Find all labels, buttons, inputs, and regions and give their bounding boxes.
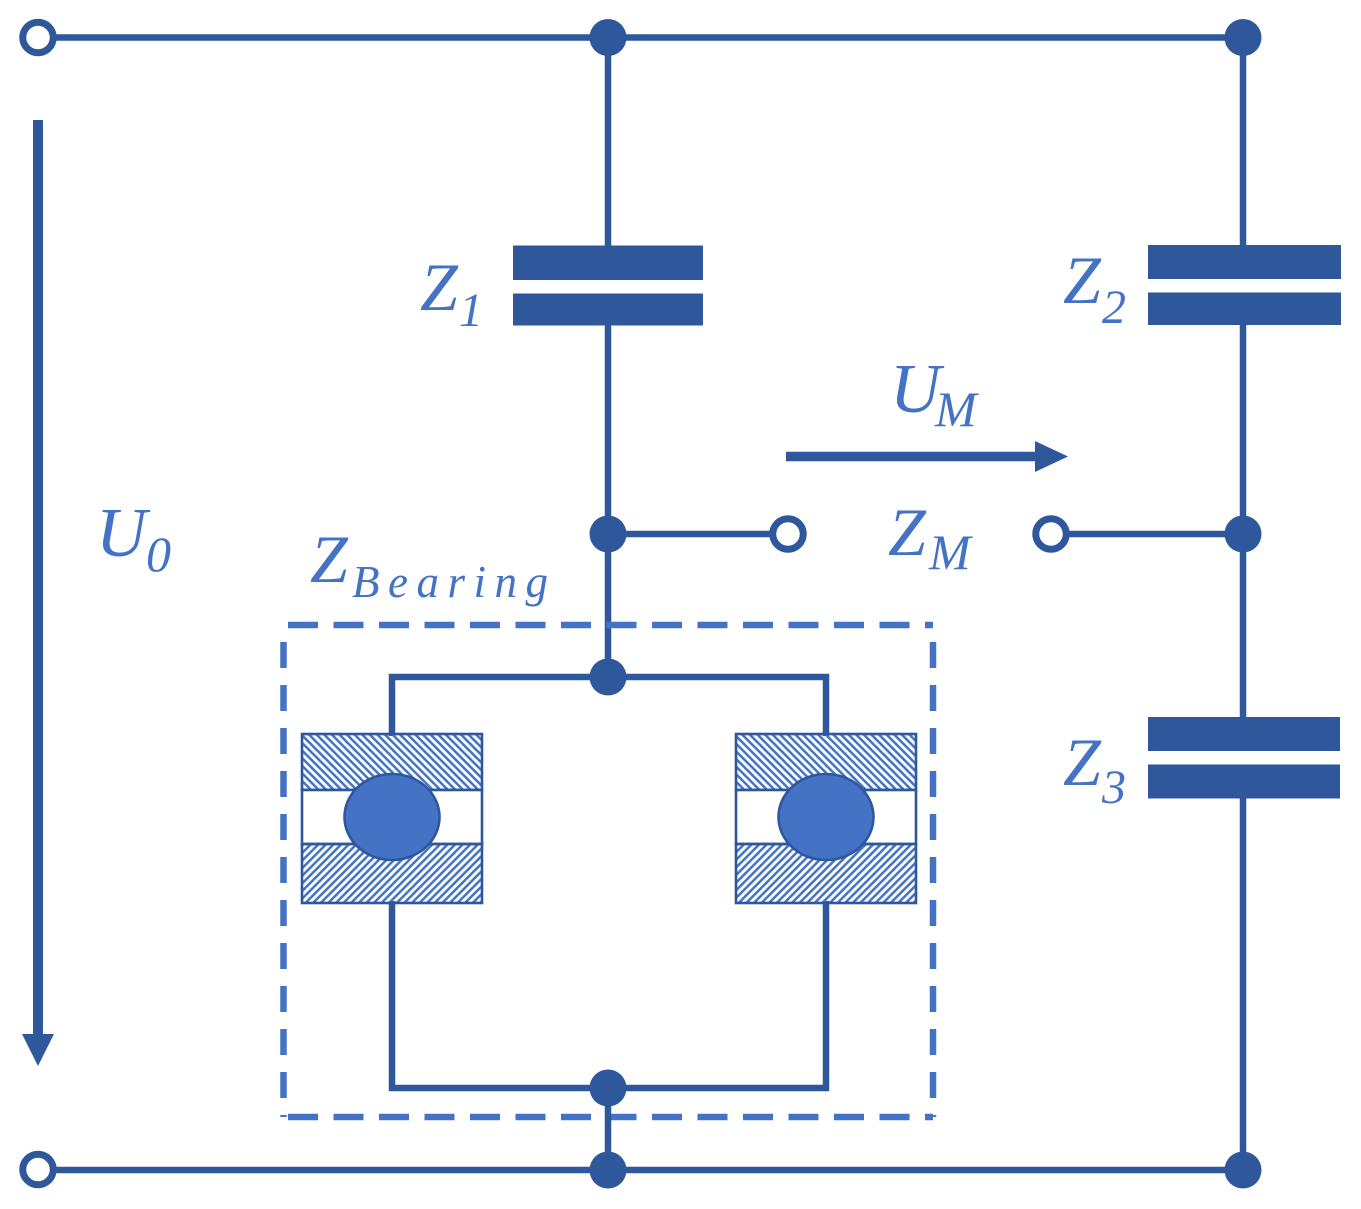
junction top-right [1225,19,1262,56]
capacitor Z2 [1148,245,1341,325]
svg-text:0: 0 [146,526,171,582]
arrow U0 (source voltage) [22,120,54,1066]
wire bottom rail [38,1167,1243,1174]
arrow UM (measured voltage) [786,441,1068,472]
wire right branch upper [1240,38,1247,249]
node M2 (measurement tap right junction) [1225,516,1262,553]
wire Z1 branch lower to node M1 [605,323,612,534]
wire Z2 to Z3 (right branch middle) [1240,323,1247,720]
label UM [890,351,979,437]
svg-text:Z: Z [888,494,927,570]
svg-text:3: 3 [1101,761,1126,814]
wire bearing top split [392,677,826,736]
label ZBearing [310,521,556,607]
svg-text:1: 1 [459,284,483,337]
label U0 [96,495,171,582]
svg-text:Bearing: Bearing [352,557,556,607]
svg-text:2: 2 [1102,281,1126,334]
terminal measurement left [773,519,804,550]
junction bottom-center [590,1152,627,1189]
junction top-center [590,19,627,56]
svg-text:Z: Z [420,249,459,325]
label ZM [888,494,973,580]
label Z1 [420,249,483,337]
svg-text:Z: Z [1063,724,1102,800]
bearing B2 (right) [736,734,916,903]
svg-text:M: M [928,524,973,580]
wire bearing network to bottom rail [605,1088,612,1170]
wire node M1 to bearing network [605,534,612,677]
junction bottom-right [1225,1152,1262,1189]
bearing B1 (left) [302,734,482,903]
terminal top-left [23,22,54,53]
wire Z1 branch upper [605,38,612,249]
svg-text:Z: Z [310,521,349,597]
svg-text:U: U [96,495,151,572]
label Z3 [1063,724,1126,814]
wire measurement tap right [1051,531,1243,538]
capacitor Z3 [1148,717,1340,799]
label Z2 [1063,242,1126,334]
dashed box ZBearing boundary [284,625,934,1117]
wire top rail [38,34,1243,41]
terminal measurement right [1036,519,1067,550]
capacitor Z1 [513,246,703,326]
terminal bottom-left [23,1154,54,1185]
node M1 (measurement tap left junction) [590,516,627,553]
wire right branch lower [1240,796,1247,1170]
junction bearing top [590,659,627,696]
junction bearing bottom [590,1070,627,1107]
wire bearing bottom join [392,901,826,1088]
wire measurement tap left [608,531,788,538]
svg-text:Z: Z [1063,242,1102,318]
svg-text:M: M [934,381,979,437]
